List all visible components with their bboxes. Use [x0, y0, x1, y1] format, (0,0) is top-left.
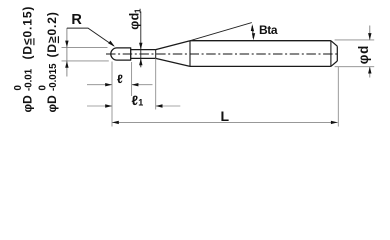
top chamfer — [331, 41, 337, 47]
R leader line — [67, 28, 114, 46]
taper/shank junction line — [189, 41, 191, 67]
l dimension line left tail — [87, 84, 112, 86]
l1 dimension line right tail — [156, 105, 181, 107]
left tolerance text line 2: phiD 0/-0.015 (D>=0.2) — [37, 11, 59, 112]
svg-text:-0.015: -0.015 — [48, 63, 59, 91]
svg-text:ℓ: ℓ — [117, 72, 123, 86]
shank end face — [336, 46, 338, 61]
phi d top extension line — [335, 39, 375, 41]
phi d1 dimension line — [140, 12, 142, 68]
phiD top extension line — [62, 46, 108, 48]
l left arrowhead — [105, 83, 112, 86]
neck end line — [155, 50, 157, 59]
svg-text:-0.01: -0.01 — [24, 68, 35, 91]
svg-text:Bta: Bta — [259, 23, 278, 37]
svg-text:(D≥0.2): (D≥0.2) — [45, 11, 59, 57]
chamfer start line — [330, 41, 332, 67]
phi d upper arrowhead — [368, 33, 371, 40]
neck bottom edge — [131, 57, 156, 59]
phi d1 upper arrowhead — [139, 43, 142, 50]
R leader arrowhead — [108, 41, 115, 47]
phi d dimension line lower — [369, 67, 371, 78]
L left arrowhead — [112, 121, 119, 124]
svg-text:1: 1 — [138, 97, 143, 107]
L dimension line — [112, 121, 338, 123]
l1 left arrowhead — [105, 104, 112, 107]
svg-text:0: 0 — [37, 85, 48, 90]
phi d1 lower arrowhead — [139, 58, 142, 65]
phi d lower arrowhead — [368, 67, 371, 74]
phi d1 label (rotated) — [128, 8, 143, 30]
phiD dimension line — [66, 28, 68, 77]
shank top edge — [190, 40, 331, 42]
neck top edge — [131, 49, 156, 51]
svg-text:φd: φd — [356, 45, 371, 65]
phi d label (rotated) — [356, 45, 371, 65]
phiD upper arrowhead — [65, 41, 68, 48]
centerline (tool axis) — [106, 53, 337, 55]
L right extension line — [337, 67, 339, 127]
taper bottom edge — [156, 58, 190, 66]
phi d dimension line upper — [369, 26, 371, 40]
svg-text:0: 0 — [13, 85, 24, 90]
left vertical extension line (tool tip) — [111, 62, 113, 127]
taper extension line (for Bta) — [190, 23, 252, 41]
L right arrowhead — [331, 121, 338, 124]
svg-text:φD: φD — [21, 95, 35, 113]
l1 dimension line left tail — [87, 105, 112, 107]
shank bottom edge — [190, 65, 331, 67]
phi d bottom extension line — [335, 66, 375, 68]
svg-text:L: L — [221, 108, 230, 124]
neck end extension line — [155, 58, 157, 109]
l1 right arrowhead — [156, 104, 163, 107]
l dimension line right tail — [132, 84, 153, 86]
svg-text:(D≤0.15): (D≤0.15) — [21, 6, 35, 60]
left tolerance text line 1: phiD 0/-0.01 (D<=0.15) — [13, 6, 35, 113]
taper top edge — [156, 41, 190, 50]
ball nose outline — [111, 48, 131, 60]
phiD lower arrowhead — [65, 61, 68, 68]
phiD bottom extension line — [62, 60, 109, 62]
bottom chamfer — [331, 61, 337, 66]
svg-text:R: R — [71, 12, 82, 28]
svg-text:φd: φd — [128, 12, 142, 30]
Bta double arrow — [251, 26, 254, 38]
ball end extension line — [131, 62, 133, 96]
l right arrowhead — [132, 83, 139, 86]
svg-text:φD: φD — [45, 95, 59, 113]
